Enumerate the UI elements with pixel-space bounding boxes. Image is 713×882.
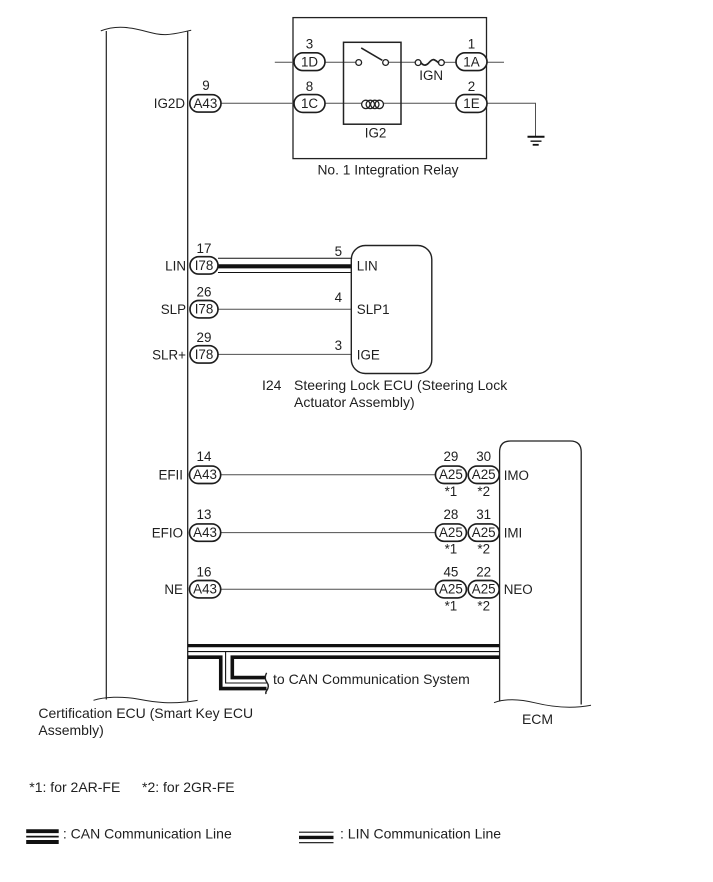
svg-text:5: 5 (335, 244, 342, 259)
svg-text:13: 13 (197, 507, 212, 522)
wire SLR+ to IGE (218, 353, 351, 355)
svg-text:1A: 1A (463, 55, 479, 70)
CAN branch inner line (232, 656, 266, 678)
svg-text:Certification ECU (Smart Key E: Certification ECU (Smart Key ECU (38, 705, 253, 721)
wire A43 IG2D to 1C (221, 102, 295, 104)
connector A25 pin 28 (IMI *1) (435, 524, 466, 541)
Certification ECU bottom wavy break (94, 697, 198, 703)
connector I78 pin 26 (SLP) (190, 301, 218, 318)
svg-text:SLP1: SLP1 (357, 302, 390, 317)
svg-text:*2: *2 (477, 598, 490, 613)
wire 1E to ground (487, 103, 536, 136)
wire EFII to A25 (221, 474, 436, 476)
connector A43 pin 13 (EFIO) (190, 524, 221, 541)
svg-text:ECM: ECM (522, 711, 553, 727)
svg-text:8: 8 (306, 79, 313, 94)
connector A43 pin 9 (IG2D) (190, 95, 221, 112)
svg-text:IGE: IGE (357, 347, 380, 362)
svg-text:A43: A43 (193, 525, 217, 540)
svg-text:A25: A25 (472, 525, 496, 540)
connector A43 pin 14 (EFII) (190, 466, 221, 483)
connector I78 pin 29 (SLR+) (190, 346, 218, 363)
Certification ECU band right edge (187, 32, 189, 702)
svg-text:NEO: NEO (504, 582, 533, 597)
connector A25 pin 31 (IMI *2) (468, 524, 499, 541)
connector A25 pin 29 (IMO *1) (435, 466, 466, 483)
wire switch to IGN fuse (389, 61, 416, 63)
wire NE to A25 (221, 588, 436, 590)
svg-text:Actuator Assembly): Actuator Assembly) (294, 394, 415, 410)
svg-text:3: 3 (306, 37, 313, 52)
svg-text:16: 16 (197, 565, 212, 580)
legend LIN symbol (299, 831, 334, 833)
svg-text:3: 3 (335, 338, 342, 353)
svg-text:A25: A25 (439, 467, 463, 482)
svg-text:IMO: IMO (504, 468, 529, 483)
svg-text:29: 29 (443, 449, 458, 464)
terminal 1D (294, 53, 325, 71)
CAN bus lower line left segment (188, 655, 223, 659)
svg-text:LIN: LIN (165, 258, 186, 273)
svg-text:Assembly): Assembly) (38, 722, 103, 738)
svg-text:22: 22 (476, 565, 491, 580)
Certification ECU top wavy break (101, 27, 191, 34)
wire SLP to SLP1 (218, 308, 351, 310)
svg-text:I78: I78 (195, 302, 214, 317)
CAN bus lower line right segment (231, 655, 500, 659)
legend CAN symbol (26, 829, 59, 833)
svg-text:1D: 1D (301, 55, 318, 70)
svg-text:30: 30 (476, 449, 491, 464)
svg-text:A25: A25 (439, 581, 463, 596)
svg-text:1E: 1E (463, 96, 479, 111)
IGN fuse contact left (415, 60, 421, 66)
svg-text:: LIN Communication Line: : LIN Communication Line (340, 826, 501, 842)
svg-text:A43: A43 (193, 581, 217, 596)
svg-text:I24: I24 (262, 377, 282, 393)
relay switch arm (361, 48, 382, 60)
svg-text:A25: A25 (472, 467, 496, 482)
relay switch contact right (383, 60, 389, 66)
svg-text:: CAN Communication Line: : CAN Communication Line (63, 826, 232, 842)
Certification ECU band left edge (105, 31, 107, 700)
LIN communication line bundle (218, 257, 351, 259)
svg-text:*1: for 2AR-FE: *1: for 2AR-FE (29, 779, 120, 795)
connector A43 pin 16 (NE) (190, 581, 221, 598)
CAN branch outer line (221, 656, 267, 689)
svg-text:NE: NE (164, 582, 183, 597)
svg-text:EFII: EFII (158, 468, 183, 483)
No. 1 Integration Relay box (293, 18, 487, 159)
connector A25 pin 30 (IMO *2) (468, 466, 499, 483)
IGN fuse contact right (439, 60, 445, 66)
relay switch contact left (356, 60, 362, 66)
svg-text:A25: A25 (472, 581, 496, 596)
svg-text:*2: *2 (477, 484, 490, 499)
svg-text:IG2D: IG2D (154, 96, 186, 111)
svg-text:2: 2 (468, 79, 475, 94)
svg-text:*2: *2 (477, 542, 490, 557)
terminal 1A (456, 53, 487, 71)
svg-text:*1: *1 (445, 598, 458, 613)
IGN fuse element (421, 60, 438, 66)
Steering Lock ECU box (351, 246, 432, 374)
svg-text:4: 4 (335, 290, 343, 305)
svg-text:IG2: IG2 (365, 126, 387, 141)
terminal 1E (456, 95, 487, 113)
svg-text:*2: for 2GR-FE: *2: for 2GR-FE (142, 779, 235, 795)
svg-text:28: 28 (443, 507, 458, 522)
svg-text:IMI: IMI (504, 526, 523, 541)
svg-text:1: 1 (468, 37, 475, 52)
svg-text:1C: 1C (301, 96, 318, 111)
terminal 1C (294, 95, 325, 113)
wire IGN fuse to 1A (444, 61, 456, 63)
wire EFIO to A25 (221, 532, 436, 534)
svg-text:26: 26 (197, 285, 212, 300)
svg-text:I78: I78 (195, 258, 214, 273)
ground (528, 136, 545, 138)
svg-text:EFIO: EFIO (152, 525, 183, 540)
svg-text:31: 31 (476, 507, 491, 522)
connector A25 pin 22 (NEO *2) (468, 581, 499, 598)
svg-text:Steering Lock ECU (Steering Lo: Steering Lock ECU (Steering Lock (294, 377, 508, 393)
CAN branch middle line (226, 652, 267, 683)
svg-text:A43: A43 (193, 467, 217, 482)
svg-text:SLR+: SLR+ (152, 347, 186, 362)
svg-text:IGN: IGN (419, 68, 443, 83)
CAN bus middle line (188, 651, 500, 653)
svg-text:29: 29 (197, 330, 212, 345)
inner relay element box (344, 42, 402, 124)
connector I78 pin 17 (LIN) (190, 257, 218, 274)
relay coil (362, 100, 384, 108)
CAN branch continuation mark (265, 673, 268, 694)
wire stub right of 1A (487, 61, 505, 63)
CAN bus upper line (188, 644, 500, 647)
svg-text:to CAN Communication System: to CAN Communication System (273, 671, 470, 687)
connector A25 pin 45 (NEO *1) (435, 581, 466, 598)
wire 1C to coil (325, 102, 363, 104)
wire 1D to switch (325, 61, 356, 63)
svg-text:45: 45 (443, 565, 458, 580)
svg-text:17: 17 (197, 241, 212, 256)
svg-text:14: 14 (197, 449, 212, 464)
svg-text:I78: I78 (195, 347, 214, 362)
svg-text:*1: *1 (445, 484, 458, 499)
ECM box (500, 441, 582, 705)
svg-text:A25: A25 (439, 525, 463, 540)
wire coil to 1E (383, 102, 457, 104)
svg-text:LIN: LIN (357, 258, 378, 273)
svg-text:*1: *1 (445, 542, 458, 557)
wire stub left of 1D (275, 61, 295, 63)
svg-text:No. 1 Integration Relay: No. 1 Integration Relay (317, 163, 458, 178)
ECM bottom wavy break (494, 700, 591, 707)
svg-text:SLP: SLP (161, 302, 186, 317)
svg-text:9: 9 (202, 78, 209, 93)
svg-text:A43: A43 (193, 96, 217, 111)
